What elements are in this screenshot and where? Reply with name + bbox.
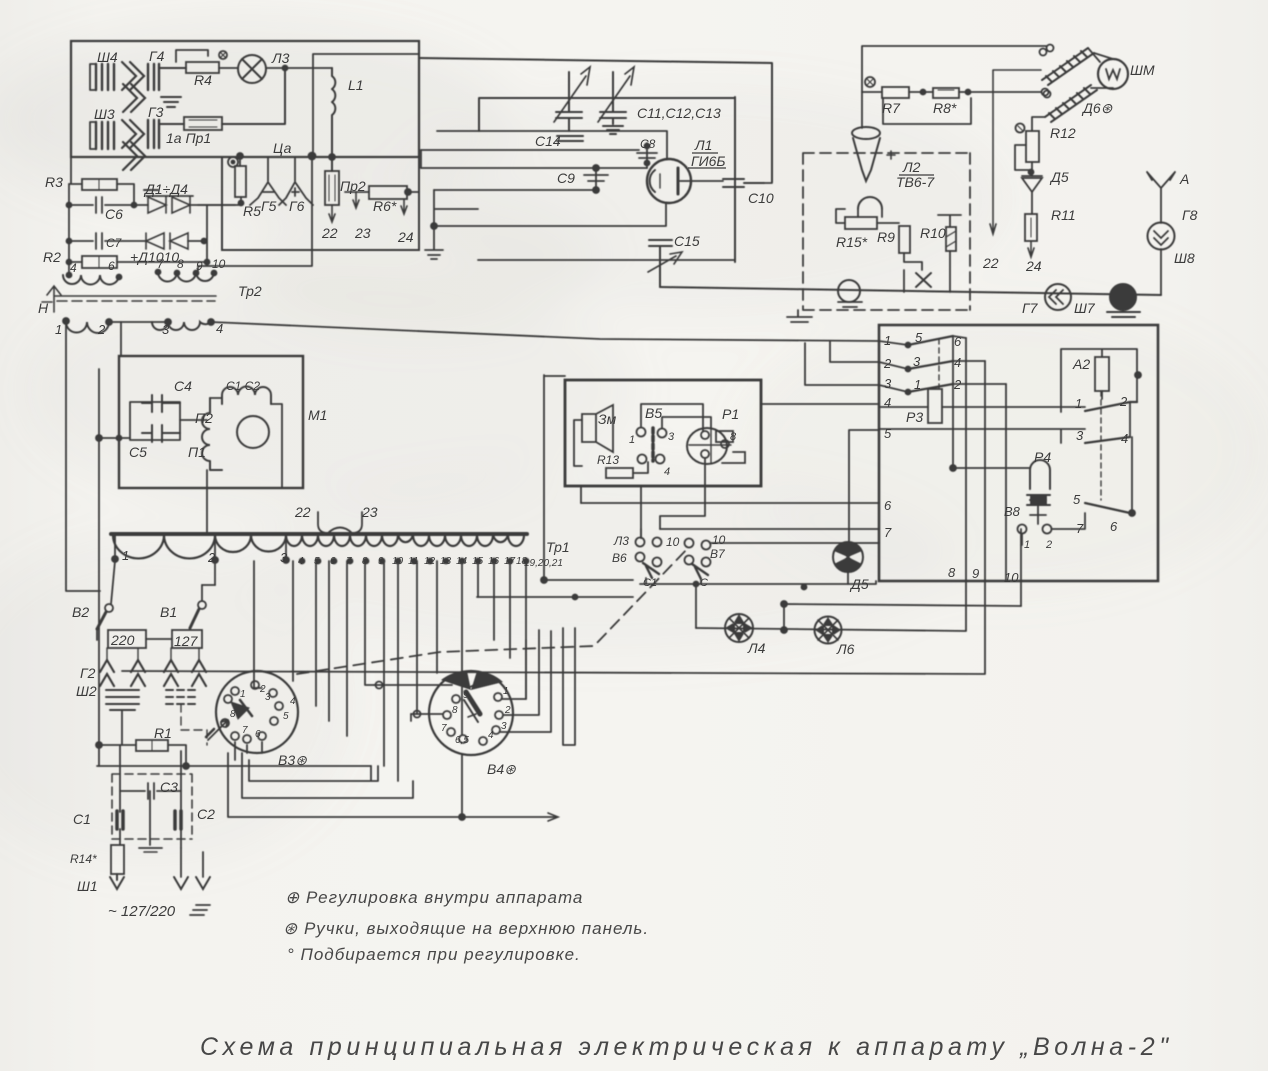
svg-text:Ш8: Ш8 [1174, 250, 1195, 266]
svg-text:ШМ: ШМ [1130, 62, 1155, 78]
svg-text:127: 127 [174, 633, 199, 649]
svg-text:Г2: Г2 [80, 665, 96, 681]
svg-text:Г3: Г3 [148, 104, 164, 120]
svg-text:М1: М1 [308, 407, 327, 423]
svg-text:С1 С2: С1 С2 [226, 379, 260, 393]
svg-text:Схема принципиальная электри: Схема принципиальная электрическая к апп… [200, 1033, 1173, 1061]
svg-text:R2: R2 [43, 249, 61, 265]
svg-text:2: 2 [953, 377, 962, 392]
svg-text:Л4: Л4 [747, 640, 766, 656]
svg-text:3: 3 [280, 550, 288, 565]
svg-text:1: 1 [1075, 396, 1082, 411]
svg-text:7: 7 [441, 723, 447, 734]
svg-text:22: 22 [294, 504, 311, 520]
svg-text:В5: В5 [645, 405, 662, 421]
svg-text:8: 8 [177, 257, 184, 271]
svg-text:4: 4 [290, 696, 296, 707]
svg-text:R6*: R6* [373, 198, 397, 214]
svg-text:3: 3 [668, 431, 675, 443]
svg-text:6: 6 [255, 729, 261, 740]
svg-text:+Д1010: +Д1010 [130, 249, 179, 265]
svg-text:° Подбирается при регулировк: ° Подбирается при регулировке. [287, 945, 581, 964]
svg-text:9: 9 [972, 566, 979, 581]
svg-text:Д6⊛: Д6⊛ [1081, 100, 1113, 116]
svg-text:4: 4 [216, 321, 223, 336]
svg-text:24: 24 [1025, 258, 1042, 274]
svg-text:С5: С5 [129, 444, 147, 460]
svg-text:23: 23 [361, 504, 378, 520]
svg-text:4: 4 [298, 556, 304, 567]
svg-text:5: 5 [1073, 492, 1081, 507]
svg-text:В1: В1 [160, 604, 177, 620]
svg-text:Г6: Г6 [289, 198, 305, 214]
svg-text:9: 9 [463, 690, 469, 701]
svg-text:П2: П2 [195, 410, 213, 426]
svg-text:12: 12 [424, 556, 436, 567]
svg-text:R14*: R14* [70, 852, 97, 866]
svg-text:R4: R4 [194, 72, 212, 88]
svg-text:R15*: R15* [836, 234, 868, 250]
svg-text:6: 6 [330, 556, 336, 567]
svg-text:5: 5 [915, 330, 923, 345]
svg-text:С7: С7 [106, 236, 123, 250]
svg-text:⊛ Ручки, выходящие на верхню: ⊛ Ручки, выходящие на верхнюю панель. [283, 919, 649, 938]
svg-text:Р3: Р3 [906, 409, 923, 425]
svg-text:4: 4 [1121, 431, 1128, 446]
svg-text:В2: В2 [72, 604, 89, 620]
svg-text:А2: А2 [1072, 356, 1090, 372]
svg-text:В3⊛: В3⊛ [278, 752, 307, 768]
svg-text:Тр2: Тр2 [238, 283, 262, 299]
svg-text:4: 4 [884, 395, 891, 410]
svg-text:Ца: Ца [273, 140, 292, 156]
svg-text:В4⊛: В4⊛ [487, 761, 516, 777]
svg-text:10: 10 [712, 533, 726, 547]
svg-text:L1: L1 [348, 77, 364, 93]
svg-text:Л3: Л3 [271, 50, 290, 66]
svg-text:С: С [700, 577, 708, 589]
svg-text:С10: С10 [748, 190, 774, 206]
svg-text:13: 13 [440, 556, 452, 567]
svg-text:Л2: Л2 [902, 159, 921, 175]
svg-text:С11,С12,С13: С11,С12,С13 [637, 105, 721, 121]
svg-text:3: 3 [501, 721, 507, 732]
svg-text:R5: R5 [243, 203, 261, 219]
svg-text:2: 2 [207, 550, 216, 565]
svg-text:3: 3 [162, 322, 170, 337]
svg-text:Г4: Г4 [149, 48, 165, 64]
svg-text:Д5: Д5 [849, 576, 869, 592]
svg-text:С1: С1 [643, 577, 657, 589]
svg-text:10: 10 [666, 535, 680, 549]
svg-text:~ 127/220: ~ 127/220 [108, 903, 176, 920]
svg-text:В8: В8 [1004, 504, 1021, 519]
svg-text:7: 7 [884, 525, 892, 540]
svg-text:В6: В6 [612, 551, 627, 565]
svg-text:10: 10 [392, 556, 404, 567]
svg-text:2: 2 [97, 322, 106, 337]
svg-text:Пр2: Пр2 [340, 178, 366, 194]
svg-text:22: 22 [321, 225, 338, 241]
svg-text:1: 1 [1024, 539, 1030, 551]
svg-text:3: 3 [913, 354, 921, 369]
svg-text:R8*: R8* [933, 100, 957, 116]
svg-text:2: 2 [504, 705, 511, 716]
svg-text:П1: П1 [188, 444, 206, 460]
svg-text:Н: Н [38, 300, 49, 316]
svg-text:Л3: Л3 [613, 534, 629, 548]
svg-text:4: 4 [664, 466, 670, 478]
svg-text:С1: С1 [73, 811, 91, 827]
svg-text:Д1÷Д4: Д1÷Д4 [143, 181, 188, 197]
svg-text:⊕ Регулировка внутри аппарат: ⊕ Регулировка внутри аппарата [285, 888, 583, 907]
svg-text:11: 11 [408, 556, 418, 567]
svg-text:7: 7 [242, 725, 248, 736]
svg-text:Ш7: Ш7 [1074, 300, 1096, 316]
svg-text:Ш4: Ш4 [97, 49, 118, 65]
svg-text:Тр1: Тр1 [546, 539, 570, 555]
svg-text:R10: R10 [920, 225, 946, 241]
svg-text:9: 9 [196, 259, 203, 273]
svg-text:1: 1 [503, 686, 509, 697]
svg-text:9: 9 [378, 556, 384, 567]
svg-text:3: 3 [884, 376, 892, 391]
svg-text:16: 16 [488, 556, 500, 567]
svg-text:R12: R12 [1050, 125, 1076, 141]
svg-text:5: 5 [283, 711, 289, 722]
svg-text:ГИ6Б: ГИ6Б [691, 153, 726, 169]
svg-text:1: 1 [884, 333, 891, 348]
svg-text:19,20,21: 19,20,21 [524, 558, 563, 569]
svg-text:А: А [1179, 171, 1189, 187]
svg-text:С15: С15 [674, 233, 700, 249]
svg-text:1: 1 [629, 434, 635, 446]
svg-text:6: 6 [884, 498, 892, 513]
svg-text:Г5: Г5 [261, 198, 277, 214]
svg-text:7: 7 [346, 556, 352, 567]
svg-text:Ш3: Ш3 [94, 106, 115, 122]
svg-text:14: 14 [456, 556, 468, 567]
svg-text:23: 23 [354, 225, 371, 241]
svg-text:С4: С4 [174, 378, 192, 394]
svg-text:6: 6 [108, 259, 115, 273]
svg-text:С9: С9 [557, 170, 575, 186]
svg-text:15: 15 [472, 556, 484, 567]
svg-text:Д5: Д5 [1049, 169, 1069, 185]
svg-text:8: 8 [452, 705, 458, 716]
svg-text:С8: С8 [640, 137, 656, 151]
svg-text:10: 10 [1004, 570, 1019, 585]
svg-text:1: 1 [240, 689, 246, 700]
svg-text:5: 5 [884, 426, 892, 441]
svg-text:1: 1 [55, 322, 62, 337]
svg-text:1: 1 [914, 377, 921, 392]
svg-text:2: 2 [1119, 394, 1128, 409]
svg-text:Л6: Л6 [836, 641, 855, 657]
svg-text:Р4: Р4 [1034, 449, 1051, 465]
svg-text:С14: С14 [535, 133, 561, 149]
svg-text:2: 2 [883, 356, 892, 371]
svg-text:8: 8 [230, 709, 236, 720]
svg-text:10: 10 [212, 257, 226, 271]
svg-text:8: 8 [948, 565, 956, 580]
svg-text:8: 8 [362, 556, 368, 567]
svg-text:Зм: Зм [598, 411, 617, 427]
svg-text:Ш2: Ш2 [76, 683, 97, 699]
svg-text:1: 1 [122, 548, 129, 563]
svg-text:8: 8 [730, 431, 737, 443]
svg-text:2: 2 [1045, 539, 1052, 551]
svg-text:3: 3 [265, 692, 271, 703]
svg-text:R13: R13 [597, 453, 619, 467]
svg-text:R7: R7 [882, 100, 901, 116]
svg-text:220: 220 [110, 632, 135, 648]
svg-text:4: 4 [70, 261, 77, 275]
svg-text:24: 24 [397, 229, 414, 245]
svg-text:1а Пр1: 1а Пр1 [166, 130, 211, 146]
svg-text:22: 22 [982, 255, 999, 271]
svg-text:Г7: Г7 [1022, 300, 1039, 316]
svg-text:4: 4 [488, 730, 494, 741]
svg-text:В7: В7 [710, 547, 726, 561]
svg-text:С3: С3 [160, 779, 178, 795]
svg-text:6: 6 [954, 334, 962, 349]
svg-text:Ш1: Ш1 [77, 878, 98, 894]
svg-text:R1: R1 [154, 725, 172, 741]
svg-text:С6: С6 [105, 206, 123, 222]
svg-text:С2: С2 [197, 806, 215, 822]
svg-text:R11: R11 [1051, 207, 1076, 223]
svg-text:3: 3 [1076, 428, 1084, 443]
svg-text:Р1: Р1 [722, 406, 739, 422]
svg-text:Л1: Л1 [694, 137, 712, 153]
svg-text:7: 7 [1076, 521, 1084, 536]
svg-text:R9: R9 [877, 229, 895, 245]
svg-text:6,5: 6,5 [455, 735, 469, 746]
svg-text:17: 17 [504, 556, 516, 567]
svg-text:Г8: Г8 [1182, 207, 1198, 223]
svg-text:ТВ6-7: ТВ6-7 [896, 174, 935, 190]
svg-text:4: 4 [954, 355, 961, 370]
svg-text:6: 6 [1110, 519, 1118, 534]
svg-text:R3: R3 [45, 174, 63, 190]
svg-text:5: 5 [314, 556, 320, 567]
